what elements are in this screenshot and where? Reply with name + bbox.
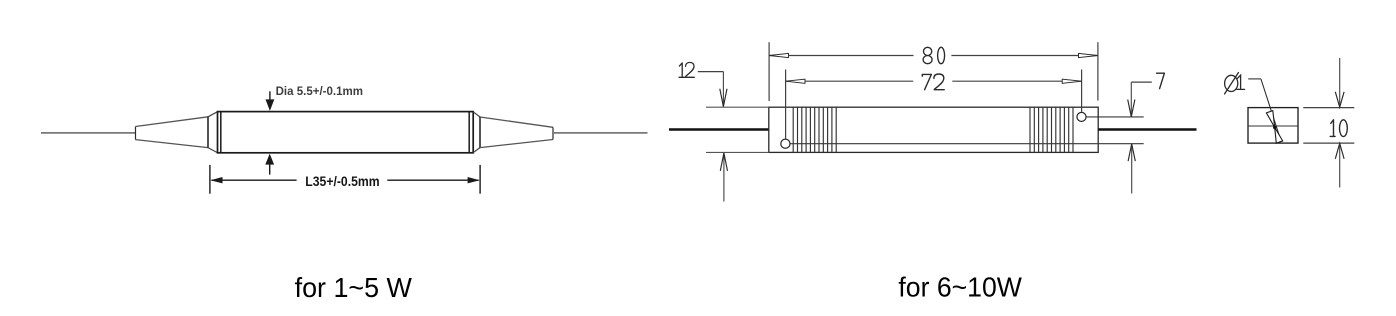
dim 12 leader line	[698, 71, 724, 73]
left taper small end	[135, 127, 137, 140]
dim line 80 with slender arrowheads	[769, 53, 1098, 57]
hatch lines right group	[1030, 107, 1073, 152]
left shoulder bottom	[208, 148, 217, 153]
right taper small end	[552, 127, 554, 139]
end view mid line (fiber bore)	[1248, 125, 1298, 127]
svg-text:L35+/-0.5mm: L35+/-0.5mm	[305, 173, 379, 189]
dim 72 extension line left (down to input circle)	[785, 70, 787, 139]
left taper top edge	[136, 117, 209, 127]
svg-text:for 1~5 W: for 1~5 W	[295, 272, 412, 303]
left taper large end	[207, 117, 209, 148]
dim line 72 with slender arrowheads	[786, 79, 1082, 83]
extension line right of L35	[479, 165, 481, 194]
label for 6~10W	[898, 271, 1022, 302]
right taper top edge	[480, 117, 553, 127]
left taper bottom edge	[136, 140, 209, 148]
dim 80 extension line right	[1097, 42, 1099, 100]
hatch lines left group	[793, 107, 836, 152]
output port circle	[1077, 112, 1086, 121]
left shoulder top	[208, 112, 217, 117]
dimension L35 arrow (up)	[265, 154, 274, 175]
dim 7 top arrow (open V, pointing down)	[1128, 82, 1135, 117]
dim 12 bottom arrow (open V, pointing up)	[720, 153, 727, 202]
text diameter symbol Ø1	[1225, 73, 1245, 94]
main body rectangle	[769, 107, 1098, 152]
bottom edge extension (left)	[706, 151, 769, 153]
dim 7 leader line	[1131, 81, 1152, 83]
dimension text L35	[305, 173, 379, 189]
label for 1~5 W	[295, 272, 412, 303]
dim text 12 (CAD stroke digits)	[679, 62, 694, 77]
dimension line L35 right segment with arrowhead	[387, 177, 479, 183]
wire: left fiber lead	[41, 132, 136, 134]
dim 12 top arrow (open V, pointing down)	[720, 72, 727, 107]
dimension text Dia 5.5	[276, 84, 363, 98]
dim 10 bottom extension	[1303, 142, 1354, 144]
right taper bottom edge	[480, 140, 553, 148]
dim 7 bottom arrow (open V, pointing up)	[1128, 144, 1135, 194]
input port circle	[781, 139, 790, 148]
svg-text:Dia 5.5+/-0.1mm: Dia 5.5+/-0.1mm	[276, 84, 363, 98]
dim 10 bottom arrow (open V, up)	[1335, 143, 1344, 187]
end view square	[1248, 108, 1298, 144]
dim text 72 (CAD stroke digits)	[922, 74, 944, 90]
dimension Dia arrow (down)	[266, 91, 275, 111]
internal fiber line upper (from output port)	[1086, 116, 1144, 118]
dim text 7 (CAD stroke digit)	[1157, 73, 1165, 88]
internal fiber line lower (from input port)	[790, 143, 1144, 145]
extension line left of L35	[209, 165, 211, 194]
wire: right fiber lead	[553, 132, 648, 134]
right shoulder bottom	[473, 148, 480, 153]
dim text 80 (CAD stroke digits)	[923, 47, 945, 63]
dim 10 top extension	[1303, 107, 1354, 109]
body cylinder rectangle	[218, 112, 474, 153]
wire: right fiber lead	[1098, 128, 1196, 131]
top edge extension (left)	[706, 106, 769, 108]
dim 10 top arrow (open V, down)	[1335, 58, 1344, 107]
dim text 10 (CAD stroke digits)	[1330, 120, 1347, 137]
end cap inner line left	[220, 112, 222, 153]
wire: left fiber lead	[669, 128, 769, 131]
leader line from Ø1 to fiber bore	[1248, 79, 1283, 143]
dimension line L35 left segment with arrowhead	[210, 177, 296, 183]
end cap inner line right	[468, 112, 470, 153]
right taper large end	[479, 117, 481, 148]
dim 72 extension line right (down to output circle)	[1081, 70, 1083, 113]
dim 80 extension line left	[768, 42, 770, 101]
right shoulder top	[473, 112, 480, 117]
svg-text:for 6~10W: for 6~10W	[898, 271, 1022, 302]
